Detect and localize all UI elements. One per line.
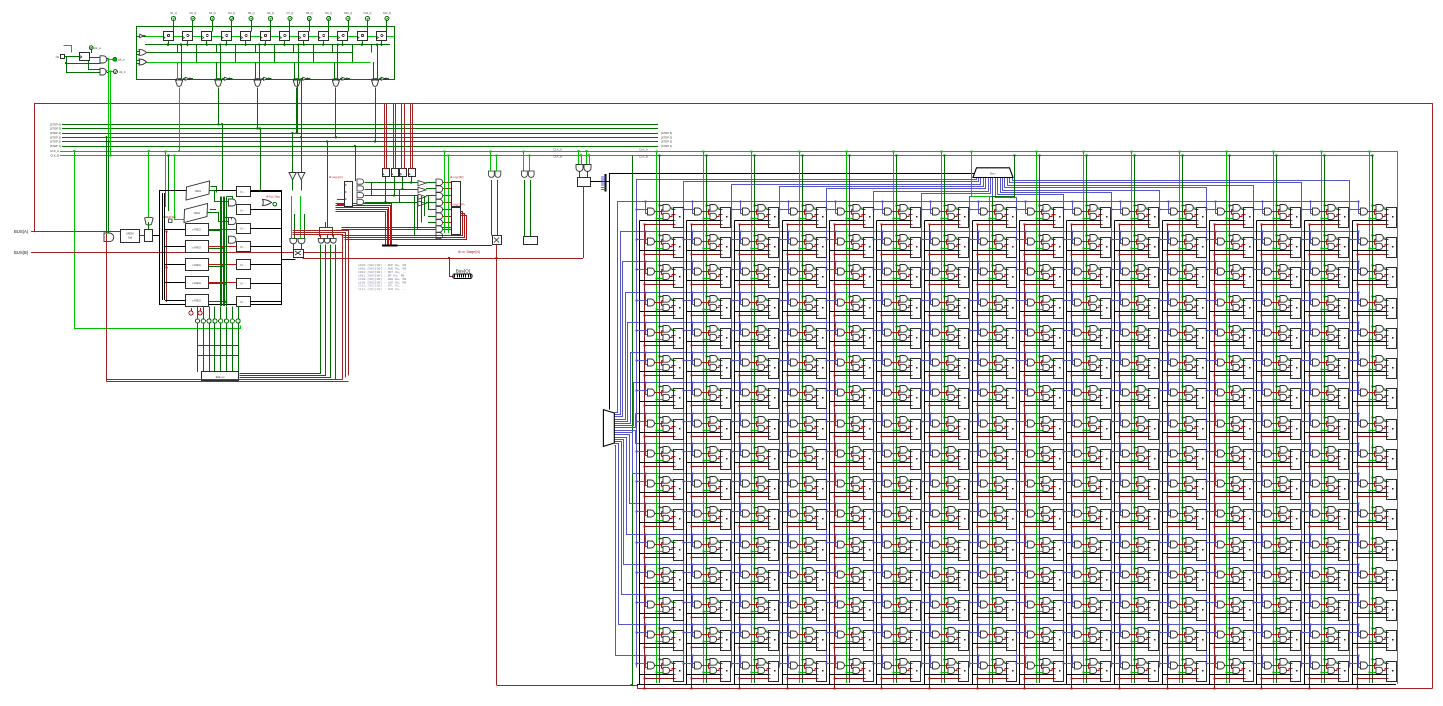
wire: fan line to column 7 [922, 178, 991, 668]
wire: column 14 data bright [1273, 151, 1275, 683]
svg-text:BUS(A): BUS(A) [14, 229, 29, 234]
wire: CLK_B drop to bus [110, 72, 112, 156]
wire: column 16 data bright [1369, 151, 1371, 683]
svg-text:[STEP 2]: [STEP 2] [661, 140, 672, 144]
wire: row 1 bus feed [615, 202, 1359, 413]
wire: pin N5_Q stem [251, 21, 253, 32]
memory cell R11C13 [1252, 533, 1300, 560]
memory cell R13C12 [1205, 593, 1253, 620]
memory cell R12C15 [1348, 563, 1396, 590]
wire: X5 input stubs [334, 79, 336, 80]
wire: X3 input taps [255, 62, 257, 81]
svg-text:N···: N··· [240, 300, 245, 304]
wire: red border right segment [1432, 103, 1434, 689]
wire: clk vertical to gates [67, 57, 101, 64]
wire: X4 input taps [294, 62, 296, 81]
wire: column 9 data dark [1039, 155, 1041, 683]
svg-text:Bus ▪: Bus ▪ [990, 173, 996, 176]
wire: column 8 red ladder [977, 225, 979, 689]
memory cell R12C6 [920, 563, 968, 590]
memory cell R13C7 [968, 593, 1016, 620]
wire: R3 to N [208, 282, 236, 284]
wire: xb drop [148, 222, 150, 230]
wire: pin 2 down [209, 323, 211, 372]
svg-text:N···: N··· [240, 282, 245, 286]
wire: sp red wrap [342, 212, 463, 236]
wire: dec outputs loop [240, 245, 321, 374]
buffer N0 [237, 187, 251, 197]
output pin N8_Q [307, 17, 311, 21]
wire: STEP bus line 1 [62, 146, 658, 148]
memory cell R1C12 [1205, 230, 1253, 257]
register SP [452, 208, 461, 235]
splitter S2 [603, 410, 614, 447]
flip-flop IR0 [383, 169, 390, 177]
memory cell R10C1 [682, 502, 730, 529]
xor gate X4 [293, 80, 300, 87]
wire: X1 input stubs [177, 79, 179, 80]
wire: column 15 data dark [1324, 155, 1326, 683]
memory cell R9C12 [1205, 472, 1253, 499]
xor gate XB [145, 217, 154, 225]
memory cell R1C11 [1158, 230, 1206, 257]
buffer T2 down [298, 173, 305, 180]
wire: dark drop 260 to frame [260, 129, 262, 191]
wire: dark drop 222 to frame [222, 124, 224, 190]
svg-text:N2_Q: N2_Q [190, 11, 197, 15]
memory cell R12C5 [872, 563, 920, 590]
memory cell R0C15 [1348, 200, 1396, 227]
wire: column 10 red ladder [1071, 225, 1073, 689]
wire: column 5 black ladder [829, 221, 831, 685]
memory cell R11C9 [1062, 533, 1110, 560]
wire: column 2 data bright [703, 151, 705, 683]
memory cell R10C10 [1110, 502, 1158, 529]
memory cell R15C2 [730, 654, 778, 681]
svg-text:x REG: x REG [192, 281, 202, 285]
memory cell R0C5 [872, 200, 920, 227]
memory cell R12C4 [825, 563, 873, 590]
memory cell R11C14 [1300, 533, 1348, 560]
memory cell R3C5 [872, 291, 920, 318]
memory cell R14C1 [682, 623, 730, 650]
decoder box DEC [202, 372, 239, 381]
svg-text:N1_Q: N1_Q [170, 11, 177, 15]
wire: grid bottom black rail [637, 684, 1396, 686]
register R1 [186, 241, 209, 253]
wire: column 9 red ladder [1024, 225, 1026, 689]
svg-text:x REG: x REG [192, 228, 202, 232]
svg-text:N···: N··· [240, 208, 245, 212]
memory cell R12C12 [1205, 563, 1253, 590]
memory cell R14C2 [730, 623, 778, 650]
wire: IR1 red feeds [393, 103, 395, 169]
wire: N6 output [250, 301, 281, 303]
flip-flop FF5 [241, 32, 251, 41]
memory cell R6C8 [1015, 381, 1063, 408]
wire: main black bus vertical [609, 173, 611, 410]
wire: row 10 bus feed [615, 433, 1359, 474]
wire: column 3 data bright [751, 151, 753, 683]
wire: step line 2 drop [218, 87, 220, 124]
wire: decode mesh [365, 182, 418, 184]
or gate O1 [139, 49, 147, 55]
memory cell R5C11 [1158, 351, 1206, 378]
buffer column [418, 181, 426, 186]
wire: n-box green links [227, 197, 233, 200]
memory cell R3C0 [635, 291, 683, 318]
memory cell R14C4 [825, 623, 873, 650]
wire: FF6 riser from or2 line [274, 45, 276, 62]
memory cell R4C7 [968, 321, 1016, 348]
memory cell R6C7 [968, 381, 1016, 408]
flip-flop FF9 [319, 32, 329, 41]
memory cell R4C1 [682, 321, 730, 348]
memory cell R12C11 [1158, 563, 1206, 590]
wire: mux M1 out link [210, 191, 229, 202]
wire: pin N2_Q stem [192, 21, 194, 32]
svg-text:N11_Q: N11_Q [363, 11, 371, 15]
wire: row 11 bus feed [615, 435, 1359, 504]
memory cell R9C4 [825, 472, 873, 499]
memory cell R6C13 [1252, 381, 1300, 408]
wire: G1 output [109, 59, 114, 61]
memory cell R4C9 [1062, 321, 1110, 348]
memory cell R1C2 [730, 230, 778, 257]
memory cell R2C11 [1158, 260, 1206, 287]
memory cell R2C13 [1252, 260, 1300, 287]
memory cell R10C9 [1062, 502, 1110, 529]
wire: pair to xm [293, 244, 295, 249]
memory cell R12C10 [1110, 563, 1158, 590]
splitter S1 [605, 174, 607, 192]
memory cell R12C3 [778, 563, 826, 590]
memory cell R14C11 [1158, 623, 1206, 650]
register R3 [186, 277, 209, 289]
wire: IR1 green stub [394, 177, 396, 180]
memory cell R6C11 [1158, 381, 1206, 408]
wire: column 14 data dark [1276, 155, 1278, 683]
memory cell R4C11 [1158, 321, 1206, 348]
memory cell R6C0 [635, 381, 683, 408]
svg-text:CLK_B: CLK_B [50, 153, 59, 157]
memory cell R9C5 [872, 472, 920, 499]
memory cell R13C2 [730, 593, 778, 620]
memory cell R10C11 [1158, 502, 1206, 529]
wire: row 12 bus feed [615, 438, 1359, 535]
wire: column 4 data dark [802, 155, 804, 683]
wire: column 15 black ladder [1304, 221, 1306, 685]
wire: column 16 data dark [1372, 155, 1374, 683]
wire: row 5 bus feed [615, 323, 1359, 422]
buffer T1 down [289, 173, 296, 180]
wire: R2 to N [208, 264, 236, 266]
memory cell R12C13 [1252, 563, 1300, 590]
memory cell R1C5 [872, 230, 920, 257]
memory cell R5C9 [1062, 351, 1110, 378]
wire: FF8 riser from or2 line [313, 45, 315, 62]
wire: column 16 black ladder [1352, 221, 1354, 685]
wire: STEP bus line 6 [62, 124, 658, 126]
memory cell R6C4 [825, 381, 873, 408]
wire: R0 to N [208, 229, 236, 231]
wire: reg select bundle 5 [226, 307, 228, 319]
wire: merged bus to xbox [397, 245, 492, 247]
wire: pair green inputs [291, 196, 293, 238]
memory cell R6C2 [730, 381, 778, 408]
wire: chain lower bus [145, 44, 390, 46]
memory cell R13C9 [1062, 593, 1110, 620]
output pin flag [273, 202, 277, 206]
wire: X4 input stubs [294, 79, 296, 80]
memory cell R12C1 [682, 563, 730, 590]
memory cell R5C13 [1252, 351, 1300, 378]
svg-text:CLK_A: CLK_A [553, 147, 562, 151]
pc gate column [357, 179, 364, 184]
pin P4 [219, 319, 223, 323]
memory cell R8C15 [1348, 442, 1396, 469]
memory cell R13C4 [825, 593, 873, 620]
svg-text:Bus(O): Bus(O) [456, 269, 471, 274]
memory cell R14C13 [1252, 623, 1300, 650]
memory cell R8C0 [635, 442, 683, 469]
memory cell R9C8 [1015, 472, 1063, 499]
memory cell R10C4 [825, 502, 873, 529]
flip-flop FF4 [222, 32, 232, 41]
svg-text:⊕ reg (SP): ⊕ reg (SP) [450, 202, 465, 206]
memory cell R0C6 [920, 200, 968, 227]
memory cell R4C10 [1110, 321, 1158, 348]
memory cell R8C4 [825, 442, 873, 469]
memory cell R2C14 [1300, 260, 1348, 287]
wire: fan line to column 2 [684, 178, 979, 668]
wire: pair green feeds [578, 151, 580, 164]
wire: column 5 data dark [849, 155, 851, 683]
wire: FF10 bottom tap [342, 41, 344, 45]
ring counter enclosure [137, 27, 395, 80]
memory cell R15C11 [1158, 654, 1206, 681]
memory cell R9C10 [1110, 472, 1158, 499]
wire: column 10 black ladder [1066, 221, 1068, 685]
memory cell R15C14 [1300, 654, 1348, 681]
memory cell R14C0 [635, 623, 683, 650]
memory cell R8C12 [1205, 442, 1253, 469]
memory cell R13C14 [1300, 593, 1348, 620]
memory cell R15C13 [1252, 654, 1300, 681]
pin P5 [224, 319, 228, 323]
svg-text:clk_a: clk_a [118, 58, 125, 62]
wire: FF7 bottom tap [284, 41, 286, 45]
wire: reg select bundle 2 [209, 307, 211, 319]
memory cell R15C0 [635, 654, 683, 681]
wire: FF1 riser from or1 line [177, 45, 179, 53]
wire: X6 input taps [373, 62, 375, 81]
wire: mesh crosslinks [371, 183, 373, 196]
svg-text:[STEP 5]: [STEP 5] [50, 127, 61, 131]
wire: column 15 data bright [1321, 151, 1323, 683]
memory cell R5C5 [872, 351, 920, 378]
flip-flop IR3 [409, 169, 416, 177]
fan splitter S3 [973, 168, 1013, 178]
memory cell R2C9 [1062, 260, 1110, 287]
memory cell R13C1 [682, 593, 730, 620]
memory cell R14C7 [968, 623, 1016, 650]
not gate XN2 [224, 77, 228, 80]
wire: IR3 green stub [411, 177, 413, 180]
wire: pin 3 down [214, 323, 216, 372]
wire: m1 out [211, 187, 217, 193]
wire: fan line to column 6 [874, 178, 989, 668]
memory cell R15C8 [1015, 654, 1063, 681]
wire: fan line to column 1 [637, 178, 977, 668]
memory cell R13C13 [1252, 593, 1300, 620]
flip-flop IR1 [392, 169, 399, 177]
wire: N1 output [250, 209, 281, 211]
svg-text:CLK_B: CLK_B [639, 154, 648, 158]
wire: enable line through flip-flops [136, 36, 394, 38]
memory cell R4C5 [872, 321, 920, 348]
svg-text:1111 [00][00] : SHR Ra, ··: 1111 [00][00] : SHR Ra, ·· [358, 287, 406, 291]
pin P0 [195, 319, 199, 323]
wire: column 13 red ladder [1214, 225, 1216, 689]
wire: clk vertical to gate2 [67, 64, 101, 73]
memory cell R7C5 [872, 412, 920, 439]
wire: FF3 bottom tap [206, 41, 208, 45]
wire: pin N7_Q stem [289, 21, 291, 32]
memory cell R11C11 [1158, 533, 1206, 560]
svg-text:N6_Q: N6_Q [267, 11, 274, 15]
memory cell R6C15 [1348, 381, 1396, 408]
wire: column 2 black ladder [686, 221, 688, 685]
memory cell R8C3 [778, 442, 826, 469]
wire: T drops [523, 151, 525, 171]
wire: ff to nand2 upper input [89, 61, 101, 70]
wire: row 2 bus feed [615, 232, 1359, 415]
wire: row 8 bus feed [615, 414, 1359, 428]
memory cell R10C5 [872, 502, 920, 529]
memory cell R6C5 [872, 381, 920, 408]
wire: column 7 data bright [941, 151, 943, 683]
memory cell R2C10 [1110, 260, 1158, 287]
memory cell R6C14 [1300, 381, 1348, 408]
wire: column 3 data dark [754, 155, 756, 683]
memory cell R7C8 [1015, 412, 1063, 439]
wire: column 8 black ladder [972, 221, 974, 685]
wire: column 14 black ladder [1256, 221, 1258, 685]
wire: grid bottom red rail dots [643, 687, 645, 689]
memory cell R11C10 [1110, 533, 1158, 560]
svg-text:N···: N··· [240, 245, 245, 249]
wire: clk to flip-flop [65, 56, 80, 58]
xor gate flag [263, 200, 272, 206]
wire: column 7 black ladder [924, 221, 926, 685]
and gate W1 [324, 238, 330, 243]
wire: dark drop 355 to pc reg [355, 146, 357, 181]
wire: column 13 black ladder [1209, 221, 1211, 685]
wire: column 1 data dark [659, 155, 661, 683]
and-down pair [290, 238, 297, 243]
memory cell R14C8 [1015, 623, 1063, 650]
wire: STEP bus line 5 [62, 128, 658, 130]
wire: and cluster stubs [320, 235, 322, 238]
wire: xbox output down [496, 245, 498, 686]
and gate W2 [331, 238, 337, 243]
wire: pin N6_Q stem [270, 21, 272, 32]
memory cell R8C6 [920, 442, 968, 469]
memory cell R9C13 [1252, 472, 1300, 499]
memory cell R4C15 [1348, 321, 1396, 348]
memory cell R13C10 [1110, 593, 1158, 620]
flip-flop FF11 [358, 32, 368, 41]
memory cell R9C14 [1300, 472, 1348, 499]
wire: or1 output line [147, 52, 353, 54]
memory cell R6C12 [1205, 381, 1253, 408]
wire: column 11 data bright [1131, 151, 1133, 683]
svg-text:⊕⊕ ▪▪▪: ⊕⊕ ▪▪▪ [215, 375, 224, 379]
output pin N7_Q [288, 17, 292, 21]
svg-text:Sel: Sel [128, 236, 133, 240]
wire: FF12 bottom tap [381, 41, 383, 45]
memory cell R3C9 [1062, 291, 1110, 318]
memory cell R14C6 [920, 623, 968, 650]
wire: bright pair to mux2 [165, 151, 167, 207]
wire: fan line to column 16 [1013, 178, 1350, 668]
memory cell R3C12 [1205, 291, 1253, 318]
buffer N4 [237, 260, 251, 270]
memory cell R2C2 [730, 260, 778, 287]
output pin N1_Q [172, 17, 176, 21]
svg-text:N12_Q: N12_Q [383, 11, 391, 15]
wire: column 15 red ladder [1309, 225, 1311, 689]
memory cell R11C3 [778, 533, 826, 560]
wire: step line 6 drop [375, 87, 377, 141]
not gate XN3 [264, 77, 268, 80]
wire: chain vertical 297 pair [297, 79, 299, 133]
memory cell R0C11 [1158, 200, 1206, 227]
small box T [524, 237, 538, 245]
output pin N6_Q [269, 17, 273, 21]
memory cell R11C2 [730, 533, 778, 560]
wire: FF9 riser from or1 line [332, 45, 334, 53]
memory cell R6C6 [920, 381, 968, 408]
memory cell R11C6 [920, 533, 968, 560]
wire: column 11 black ladder [1114, 221, 1116, 685]
flip-flop FF3 [202, 32, 212, 41]
wire: pin N11_Q stem [367, 21, 369, 32]
memory cell R14C5 [872, 623, 920, 650]
wire: column 5 red ladder [834, 225, 836, 689]
wire: dark pair drop to and gate B [108, 142, 110, 233]
svg-text:N···: N··· [240, 227, 245, 231]
memory cell R1C8 [1015, 230, 1063, 257]
wire: column 12 red ladder [1167, 225, 1169, 689]
memory cell R11C5 [872, 533, 920, 560]
node CLK_B bus line [60, 155, 1373, 157]
wire: pin N10_Q stem [348, 21, 350, 32]
wire: fan line to column 14 [1008, 178, 1254, 668]
wire: column 12 data bright [1179, 151, 1181, 683]
memory cell R12C14 [1300, 563, 1348, 590]
memory cell R13C11 [1158, 593, 1206, 620]
memory cell R3C7 [968, 291, 1016, 318]
memory cell R15C10 [1110, 654, 1158, 681]
memory cell R10C8 [1015, 502, 1063, 529]
memory cell R1C6 [920, 230, 968, 257]
buffer N5 [237, 279, 251, 289]
memory cell R12C7 [968, 563, 1016, 590]
memory cell R4C14 [1300, 321, 1348, 348]
wire: red border bottom segment [497, 686, 1433, 689]
